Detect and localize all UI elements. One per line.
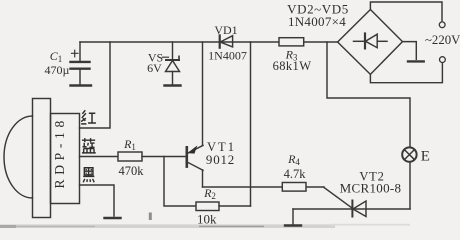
- svg-text:R2: R2: [203, 186, 216, 201]
- svg-text:6V: 6V: [147, 61, 162, 75]
- svg-text:1N4007: 1N4007: [208, 48, 247, 62]
- svg-text:470k: 470k: [119, 164, 145, 178]
- svg-text:E: E: [421, 148, 430, 164]
- svg-text:68k1W: 68k1W: [273, 59, 312, 73]
- svg-text:R4: R4: [287, 152, 300, 167]
- svg-text:1N4007×4: 1N4007×4: [288, 14, 346, 29]
- svg-text:MCR100-8: MCR100-8: [340, 181, 402, 196]
- svg-text:9012: 9012: [206, 152, 235, 167]
- svg-text:10k: 10k: [197, 211, 217, 226]
- svg-text:~220V: ~220V: [425, 33, 460, 47]
- svg-text:470µ: 470µ: [45, 63, 70, 77]
- svg-text:RDP-18: RDP-18: [52, 116, 67, 188]
- svg-text:4.7k: 4.7k: [284, 167, 307, 181]
- svg-text:C1: C1: [50, 49, 63, 64]
- svg-text:VD1: VD1: [214, 23, 237, 37]
- svg-text:R1: R1: [123, 137, 136, 152]
